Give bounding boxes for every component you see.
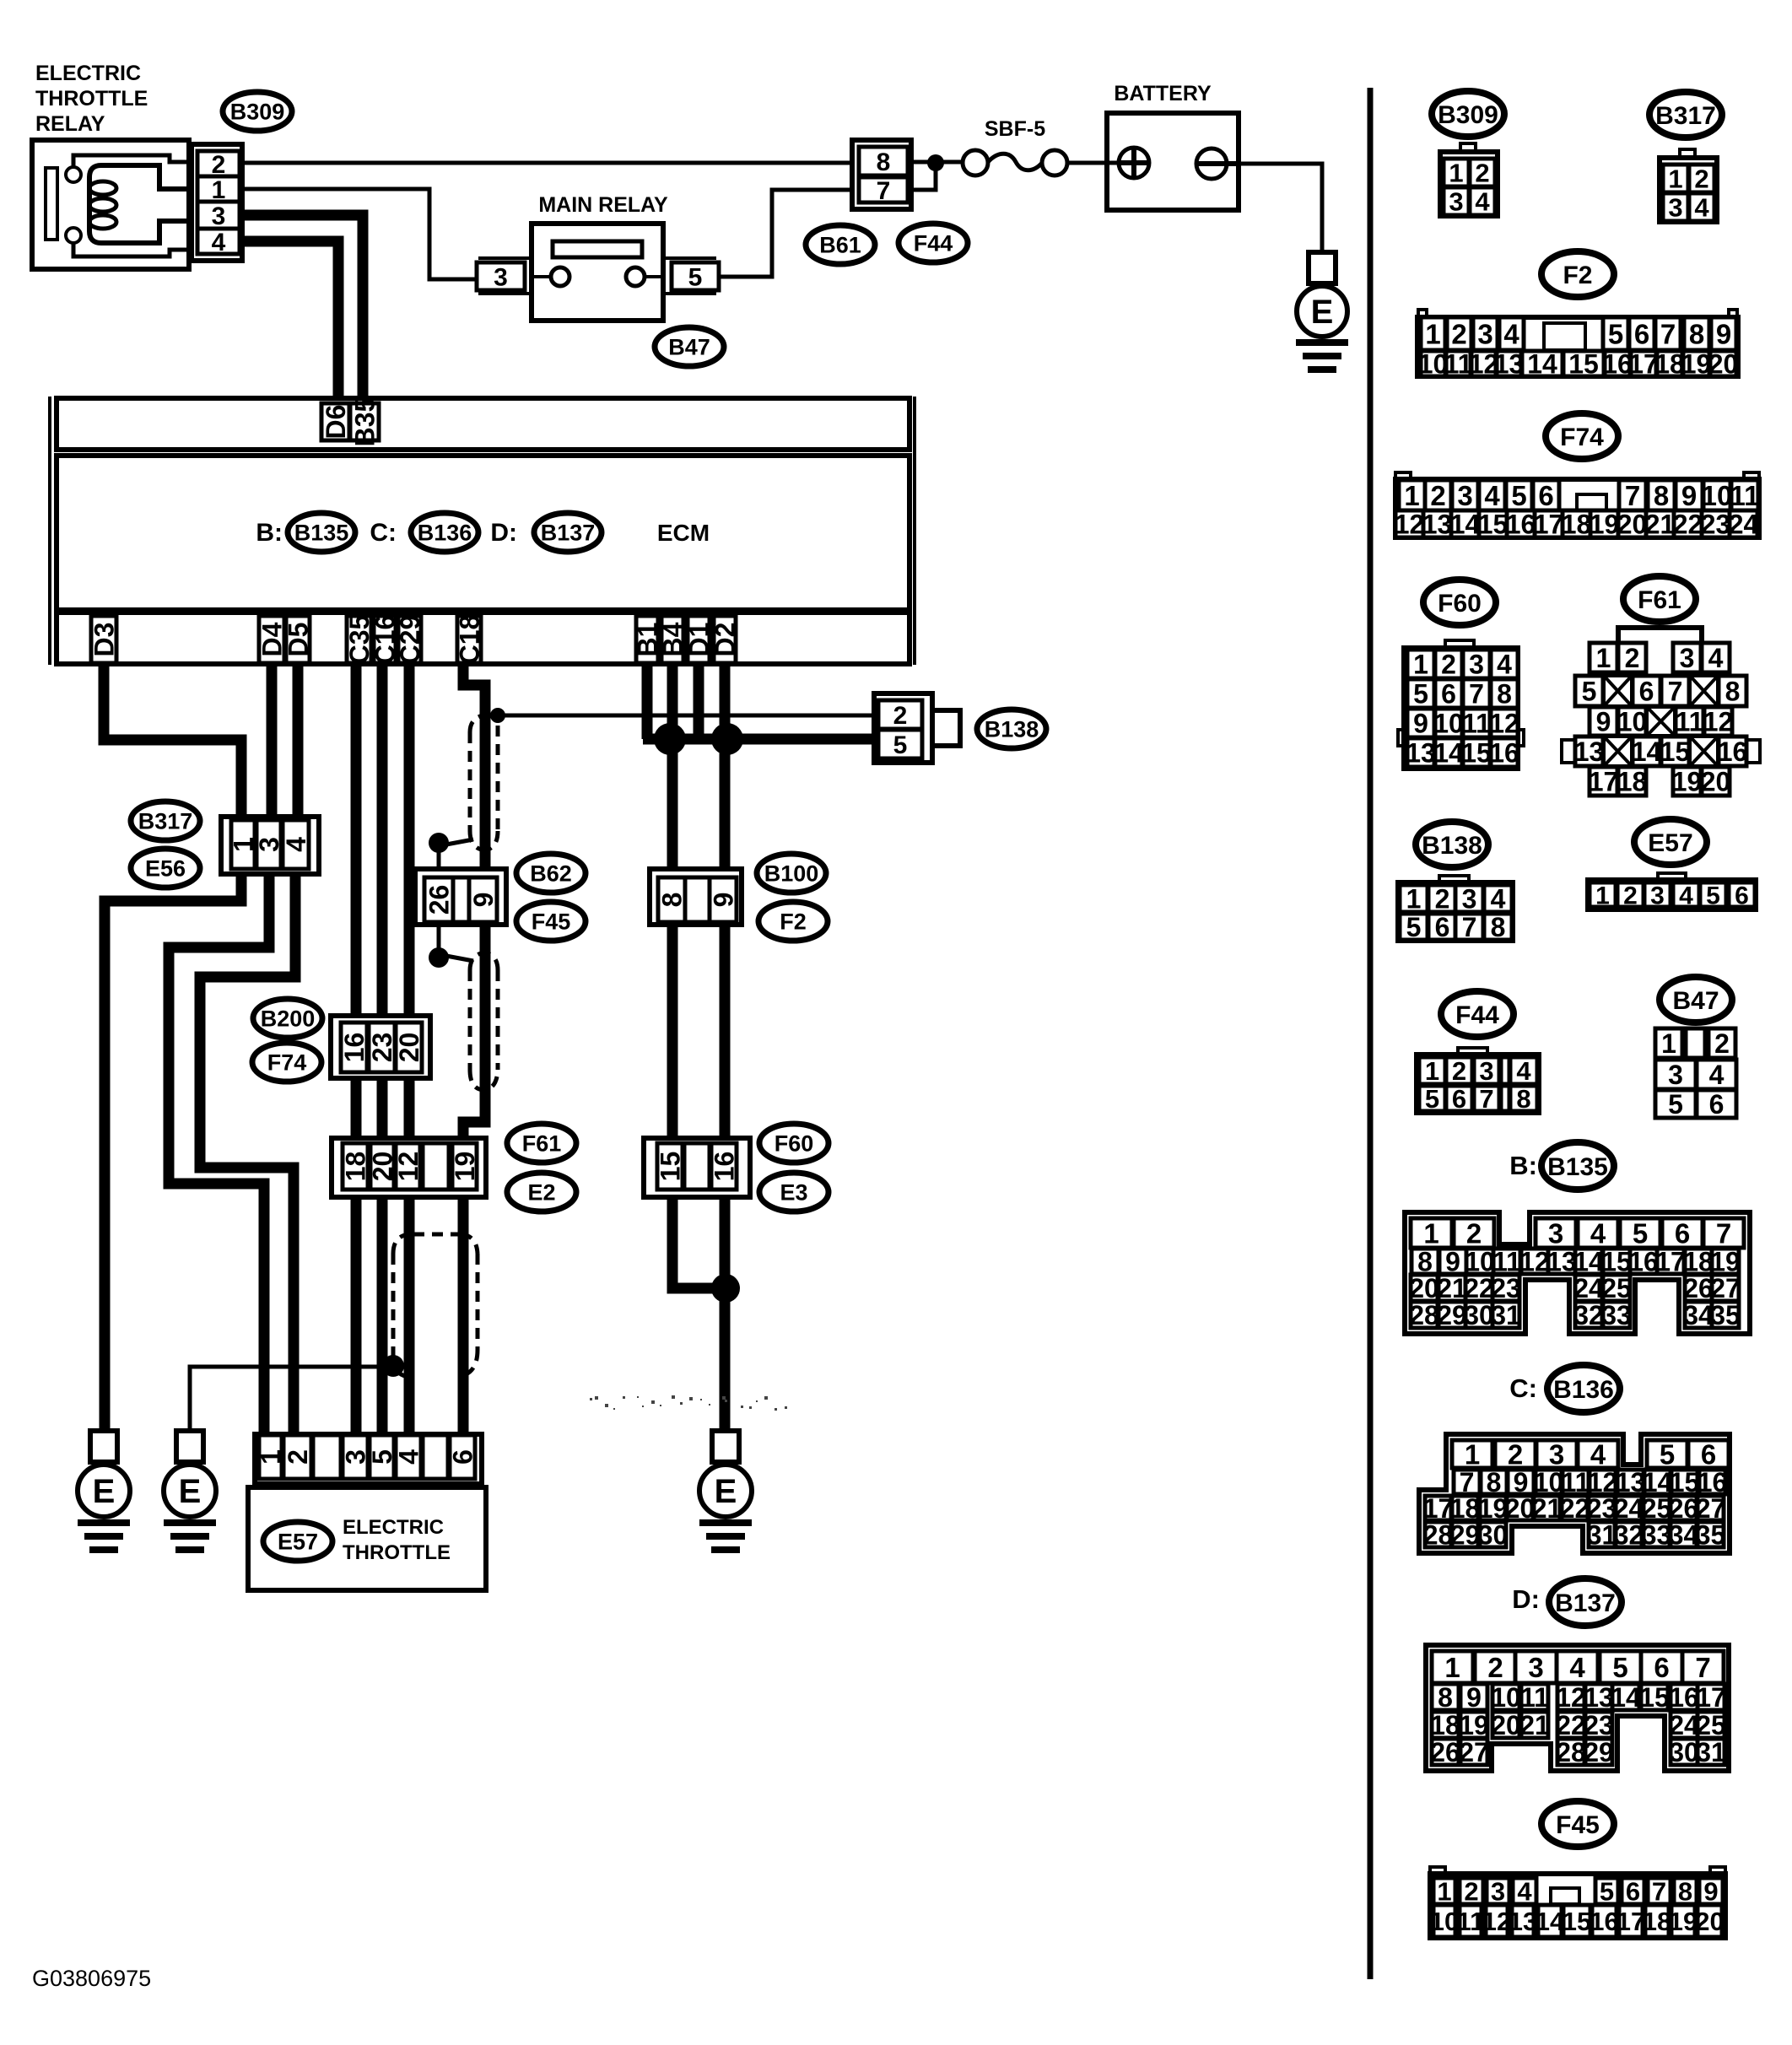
svg-text:D:: D:: [1512, 1584, 1540, 1614]
svg-text:6: 6: [1701, 1438, 1716, 1470]
svg-text:11: 11: [1730, 480, 1760, 511]
svg-text:32: 32: [1614, 1520, 1644, 1551]
svg-text:17: 17: [1655, 1247, 1686, 1277]
svg-text:24: 24: [1729, 510, 1759, 540]
svg-text:35: 35: [1710, 1300, 1741, 1330]
svg-text:19: 19: [1459, 1710, 1489, 1740]
svg-text:8: 8: [657, 893, 688, 908]
svg-text:33: 33: [1601, 1300, 1632, 1330]
svg-text:6: 6: [1452, 1084, 1466, 1114]
svg-text:1: 1: [1661, 1028, 1676, 1059]
svg-text:21: 21: [1437, 1273, 1467, 1303]
svg-text:5: 5: [1608, 318, 1623, 349]
svg-text:18: 18: [1643, 1907, 1671, 1936]
svg-text:8: 8: [1438, 1682, 1453, 1713]
svg-text:3: 3: [1462, 884, 1477, 915]
svg-text:F44: F44: [914, 231, 953, 256]
svg-text:F45: F45: [1556, 1811, 1600, 1839]
svg-text:24: 24: [1669, 1710, 1699, 1740]
svg-text:8: 8: [1497, 679, 1512, 710]
svg-text:22: 22: [1673, 510, 1703, 540]
svg-text:16: 16: [1489, 738, 1519, 769]
svg-text:E: E: [715, 1473, 737, 1510]
svg-text:B61: B61: [819, 233, 861, 258]
svg-text:8: 8: [1491, 912, 1506, 942]
svg-text:5: 5: [1406, 912, 1422, 942]
svg-text:1: 1: [1596, 643, 1611, 673]
svg-text:F61: F61: [522, 1131, 562, 1157]
svg-text:19: 19: [450, 1152, 480, 1182]
svg-text:2: 2: [1475, 159, 1489, 188]
svg-text:4: 4: [1679, 882, 1693, 909]
svg-text:12: 12: [1489, 709, 1519, 739]
svg-text:3: 3: [1549, 1438, 1564, 1470]
svg-text:27: 27: [1459, 1737, 1489, 1767]
svg-text:17: 17: [1589, 767, 1619, 797]
svg-text:12: 12: [1482, 1907, 1511, 1936]
svg-text:1: 1: [1465, 1438, 1480, 1470]
svg-text:27: 27: [1710, 1273, 1741, 1303]
svg-text:B200: B200: [261, 1006, 316, 1032]
svg-text:E: E: [179, 1473, 202, 1510]
svg-text:4: 4: [1497, 650, 1512, 680]
svg-text:10: 10: [1491, 1682, 1521, 1713]
svg-text:28: 28: [1409, 1300, 1439, 1330]
svg-text:34: 34: [1669, 1520, 1699, 1551]
svg-text:8: 8: [1678, 1877, 1692, 1907]
svg-text:16: 16: [1718, 737, 1748, 767]
svg-text:15: 15: [1563, 1907, 1591, 1936]
svg-text:2: 2: [1430, 480, 1445, 511]
svg-text:15: 15: [656, 1152, 686, 1182]
svg-text:31: 31: [1696, 1737, 1726, 1767]
svg-text:16: 16: [1506, 510, 1536, 540]
svg-text:7: 7: [1660, 318, 1676, 349]
svg-text:14: 14: [1611, 1682, 1641, 1713]
svg-text:18: 18: [1430, 1710, 1460, 1740]
svg-text:1: 1: [1437, 1877, 1451, 1907]
svg-text:D:: D:: [490, 519, 517, 547]
svg-text:20: 20: [1695, 1907, 1724, 1936]
svg-text:THROTTLE: THROTTLE: [35, 87, 148, 111]
svg-text:4: 4: [1517, 1877, 1532, 1907]
svg-text:9: 9: [1703, 1877, 1718, 1907]
svg-text:1: 1: [1406, 884, 1422, 915]
svg-text:24: 24: [1573, 1273, 1604, 1303]
svg-text:B135: B135: [1547, 1153, 1608, 1181]
svg-text:1: 1: [1449, 159, 1463, 188]
svg-text:2: 2: [1435, 884, 1450, 915]
svg-text:5: 5: [1706, 882, 1720, 909]
svg-text:2: 2: [1464, 1877, 1478, 1907]
svg-text:B47: B47: [668, 335, 710, 360]
svg-text:3: 3: [1668, 1060, 1683, 1090]
svg-text:11: 11: [1462, 709, 1491, 739]
svg-text:19: 19: [1669, 1907, 1698, 1936]
svg-text:4: 4: [1475, 187, 1490, 217]
svg-text:B138: B138: [1422, 832, 1482, 860]
svg-text:31: 31: [1587, 1520, 1617, 1551]
svg-text:14: 14: [1433, 738, 1464, 769]
svg-text:9: 9: [1413, 709, 1428, 739]
svg-text:15: 15: [1478, 510, 1509, 540]
svg-text:10: 10: [1430, 1907, 1459, 1936]
svg-text:6: 6: [1634, 318, 1649, 349]
svg-text:1: 1: [1404, 480, 1419, 511]
svg-text:29: 29: [1584, 1737, 1614, 1767]
svg-text:B317: B317: [1655, 102, 1716, 130]
svg-text:22: 22: [1560, 1493, 1590, 1524]
svg-text:2: 2: [1508, 1438, 1523, 1470]
svg-text:7: 7: [1462, 912, 1477, 942]
svg-text:16: 16: [1669, 1682, 1699, 1713]
svg-text:14: 14: [1536, 1907, 1565, 1936]
svg-text:20: 20: [1409, 1273, 1439, 1303]
svg-text:4: 4: [1516, 1056, 1531, 1086]
svg-text:4: 4: [1491, 884, 1506, 915]
svg-text:2: 2: [893, 702, 908, 730]
svg-text:1: 1: [1413, 650, 1428, 680]
svg-text:18: 18: [1617, 767, 1648, 797]
svg-text:15: 15: [1639, 1682, 1670, 1713]
svg-text:5: 5: [1600, 1877, 1614, 1907]
svg-text:4: 4: [1590, 1217, 1606, 1249]
svg-text:28: 28: [1423, 1520, 1454, 1551]
svg-text:32: 32: [1573, 1300, 1604, 1330]
svg-text:F2: F2: [1563, 262, 1592, 289]
svg-text:17: 17: [1617, 1907, 1645, 1936]
svg-text:15: 15: [1461, 738, 1492, 769]
svg-text:5: 5: [1660, 1438, 1675, 1470]
svg-text:30: 30: [1478, 1520, 1509, 1551]
svg-text:4: 4: [1569, 1652, 1585, 1683]
svg-text:19: 19: [1590, 510, 1620, 540]
svg-text:3: 3: [254, 837, 284, 852]
svg-text:D3: D3: [89, 623, 120, 657]
svg-text:4: 4: [1708, 643, 1724, 673]
svg-text:B309: B309: [1438, 101, 1498, 129]
svg-text:B309: B309: [230, 100, 285, 125]
svg-text:4: 4: [394, 1449, 424, 1465]
svg-text:7: 7: [1668, 677, 1683, 707]
svg-text:E56: E56: [145, 856, 186, 882]
svg-text:7: 7: [1625, 480, 1640, 511]
svg-text:B136: B136: [1553, 1376, 1614, 1404]
svg-text:18: 18: [341, 1152, 371, 1182]
svg-text:F74: F74: [1560, 424, 1604, 451]
svg-text:4: 4: [1709, 1060, 1725, 1090]
svg-text:C29: C29: [395, 615, 425, 665]
svg-text:1: 1: [1668, 165, 1682, 194]
svg-text:5: 5: [688, 263, 703, 291]
svg-text:14: 14: [1632, 737, 1662, 767]
svg-text:34: 34: [1683, 1300, 1714, 1330]
svg-text:15: 15: [1660, 737, 1691, 767]
svg-text:1: 1: [1595, 882, 1610, 909]
svg-text:9: 9: [1596, 707, 1611, 737]
svg-text:5: 5: [1668, 1089, 1683, 1120]
svg-text:6: 6: [448, 1449, 478, 1465]
svg-text:17: 17: [1696, 1682, 1726, 1713]
svg-text:30: 30: [1464, 1300, 1494, 1330]
svg-text:8: 8: [1725, 677, 1741, 707]
svg-text:4: 4: [1503, 318, 1519, 349]
svg-text:2: 2: [1625, 643, 1640, 673]
svg-text:28: 28: [1556, 1737, 1586, 1767]
svg-text:21: 21: [1519, 1710, 1550, 1740]
svg-text:6: 6: [1709, 1089, 1725, 1120]
svg-text:13: 13: [1406, 738, 1436, 769]
svg-text:12: 12: [393, 1152, 424, 1182]
svg-text:7: 7: [1479, 1084, 1493, 1114]
svg-text:B35: B35: [350, 397, 381, 447]
svg-text:C:: C:: [1509, 1373, 1537, 1403]
svg-text:7: 7: [877, 177, 891, 205]
svg-text:25: 25: [1696, 1710, 1726, 1740]
svg-text:5: 5: [1612, 1652, 1627, 1683]
svg-text:19: 19: [1672, 767, 1703, 797]
svg-text:B62: B62: [530, 861, 572, 887]
svg-text:16: 16: [1628, 1247, 1659, 1277]
svg-text:B47: B47: [1672, 987, 1719, 1015]
svg-text:3: 3: [1491, 1877, 1505, 1907]
svg-text:23: 23: [1701, 510, 1731, 540]
svg-text:11: 11: [1520, 1682, 1549, 1713]
svg-text:4: 4: [1590, 1438, 1606, 1470]
svg-text:F61: F61: [1638, 586, 1681, 614]
svg-text:2: 2: [1694, 165, 1708, 194]
svg-text:F60: F60: [775, 1131, 814, 1157]
svg-text:8: 8: [1689, 318, 1704, 349]
svg-text:20: 20: [1708, 349, 1739, 380]
svg-text:16: 16: [710, 1152, 740, 1182]
svg-text:ECM: ECM: [657, 520, 710, 546]
svg-text:18: 18: [1654, 349, 1685, 380]
svg-text:6: 6: [1654, 1652, 1669, 1683]
svg-text:9: 9: [1716, 318, 1731, 349]
svg-text:F60: F60: [1438, 590, 1482, 618]
svg-text:14: 14: [1527, 349, 1557, 380]
svg-text:26: 26: [1430, 1737, 1460, 1767]
svg-text:20: 20: [1701, 767, 1731, 797]
svg-text:7: 7: [1695, 1652, 1710, 1683]
svg-text:16: 16: [339, 1033, 370, 1063]
svg-text:13: 13: [1494, 349, 1525, 380]
svg-text:29: 29: [1450, 1520, 1481, 1551]
svg-text:2: 2: [1466, 1217, 1482, 1249]
svg-text:E2: E2: [527, 1180, 555, 1206]
svg-text:1: 1: [1423, 1217, 1438, 1249]
svg-text:D6: D6: [321, 405, 351, 440]
svg-text:13: 13: [1546, 1247, 1577, 1277]
svg-text:4: 4: [281, 837, 311, 852]
svg-text:6: 6: [1441, 679, 1456, 710]
svg-text:6: 6: [1435, 912, 1450, 942]
svg-text:2: 2: [1451, 318, 1466, 349]
svg-text:F44: F44: [1455, 1001, 1499, 1029]
svg-text:D2: D2: [710, 623, 741, 657]
svg-text:E3: E3: [780, 1180, 807, 1206]
svg-text:5: 5: [893, 731, 908, 759]
svg-text:3: 3: [1449, 187, 1463, 217]
svg-text:12: 12: [1395, 510, 1425, 540]
svg-text:9: 9: [468, 893, 499, 908]
svg-text:22: 22: [1556, 1710, 1586, 1740]
svg-text:8: 8: [1516, 1084, 1530, 1114]
svg-text:1: 1: [1425, 318, 1440, 349]
svg-text:3: 3: [1469, 650, 1484, 680]
svg-text:26: 26: [1683, 1273, 1714, 1303]
svg-text:3: 3: [1668, 193, 1682, 223]
svg-text:3: 3: [212, 202, 226, 230]
svg-text:F74: F74: [267, 1050, 307, 1076]
svg-text:C:: C:: [370, 519, 397, 547]
svg-text:ELECTRIC: ELECTRIC: [35, 62, 141, 85]
svg-text:ELECTRIC: ELECTRIC: [343, 1516, 444, 1539]
svg-text:23: 23: [367, 1033, 397, 1063]
svg-text:20: 20: [394, 1033, 424, 1063]
svg-text:2: 2: [1623, 882, 1638, 909]
svg-text:2: 2: [1714, 1028, 1730, 1059]
svg-text:5: 5: [1413, 679, 1428, 710]
svg-text:4: 4: [1694, 193, 1709, 223]
svg-text:2: 2: [283, 1449, 313, 1465]
svg-text:13: 13: [1584, 1682, 1614, 1713]
svg-text:10: 10: [1617, 707, 1648, 737]
svg-text:SBF-5: SBF-5: [985, 117, 1045, 141]
svg-text:B137: B137: [541, 521, 596, 546]
svg-text:15: 15: [1568, 349, 1599, 380]
svg-text:D5: D5: [283, 623, 314, 657]
svg-text:B137: B137: [1555, 1589, 1616, 1617]
svg-text:21: 21: [1532, 1493, 1563, 1524]
svg-text:7: 7: [1469, 679, 1484, 710]
svg-text:29: 29: [1437, 1300, 1467, 1330]
svg-text:F2: F2: [780, 909, 807, 935]
svg-text:B135: B135: [294, 521, 349, 546]
svg-text:9: 9: [709, 893, 739, 908]
svg-text:12: 12: [1519, 1247, 1550, 1277]
svg-text:6: 6: [1538, 480, 1553, 511]
svg-text:1: 1: [1444, 1652, 1460, 1683]
svg-text:3: 3: [1457, 480, 1472, 511]
svg-text:6: 6: [1626, 1877, 1640, 1907]
svg-text:B136: B136: [418, 521, 472, 546]
svg-text:5: 5: [1582, 677, 1597, 707]
svg-text:6: 6: [1675, 1217, 1690, 1249]
svg-text:11: 11: [1457, 1907, 1485, 1936]
svg-text:5: 5: [1633, 1217, 1648, 1249]
svg-text:E: E: [1311, 294, 1334, 331]
svg-text:B100: B100: [764, 861, 819, 887]
svg-text:3: 3: [1528, 1652, 1543, 1683]
svg-text:2: 2: [1441, 650, 1456, 680]
svg-text:3: 3: [1477, 318, 1492, 349]
svg-text:13: 13: [1422, 510, 1453, 540]
svg-text:10: 10: [1433, 709, 1464, 739]
svg-text:7: 7: [1716, 1217, 1731, 1249]
svg-text:13: 13: [1574, 737, 1605, 767]
svg-text:3: 3: [494, 263, 508, 291]
svg-text:RELAY: RELAY: [35, 112, 105, 136]
svg-text:3: 3: [1548, 1217, 1563, 1249]
svg-text:22: 22: [1464, 1273, 1494, 1303]
svg-text:35: 35: [1696, 1520, 1726, 1551]
svg-text:3: 3: [1650, 882, 1665, 909]
svg-text:6: 6: [1639, 677, 1654, 707]
svg-text:4: 4: [1484, 480, 1500, 511]
svg-text:8: 8: [877, 148, 891, 176]
svg-text:33: 33: [1642, 1520, 1672, 1551]
svg-text:20: 20: [1617, 510, 1648, 540]
svg-text:1: 1: [1425, 1056, 1439, 1086]
svg-text:23: 23: [1491, 1273, 1521, 1303]
svg-text:16: 16: [1590, 1907, 1618, 1936]
svg-text:THROTTLE: THROTTLE: [343, 1541, 451, 1564]
svg-text:B317: B317: [138, 809, 193, 834]
svg-text:9: 9: [1466, 1682, 1482, 1713]
svg-text:12: 12: [1703, 707, 1734, 737]
svg-text:19: 19: [1681, 349, 1712, 380]
svg-text:BATTERY: BATTERY: [1114, 82, 1212, 105]
svg-text:9: 9: [1681, 480, 1697, 511]
svg-text:10: 10: [1702, 480, 1733, 511]
svg-text:5: 5: [1425, 1084, 1439, 1114]
svg-text:2: 2: [1452, 1056, 1466, 1086]
svg-text:MAIN RELAY: MAIN RELAY: [538, 193, 668, 217]
svg-text:20: 20: [1505, 1493, 1536, 1524]
svg-text:18: 18: [1562, 510, 1592, 540]
svg-text:13: 13: [1509, 1907, 1537, 1936]
svg-text:6: 6: [1735, 882, 1749, 909]
svg-text:2: 2: [1487, 1652, 1503, 1683]
svg-text:31: 31: [1491, 1300, 1521, 1330]
svg-text:7: 7: [1652, 1877, 1666, 1907]
svg-text:21: 21: [1645, 510, 1676, 540]
svg-text:3: 3: [1479, 1056, 1493, 1086]
svg-text:F45: F45: [532, 909, 571, 935]
svg-text:30: 30: [1669, 1737, 1699, 1767]
svg-text:4: 4: [212, 229, 226, 256]
svg-text:23: 23: [1584, 1710, 1614, 1740]
svg-text:E: E: [93, 1473, 116, 1510]
svg-text:C18: C18: [455, 615, 485, 665]
svg-text:G03806975: G03806975: [32, 1966, 151, 1991]
svg-text:B138: B138: [985, 717, 1039, 742]
svg-text:14: 14: [1450, 510, 1481, 540]
svg-text:8: 8: [1654, 480, 1669, 511]
svg-text:26: 26: [424, 885, 455, 915]
svg-text:17: 17: [1534, 510, 1564, 540]
svg-text:25: 25: [1601, 1273, 1632, 1303]
svg-text:12: 12: [1556, 1682, 1586, 1713]
svg-text:20: 20: [1491, 1710, 1521, 1740]
svg-text:E57: E57: [278, 1530, 318, 1555]
svg-text:5: 5: [1511, 480, 1526, 511]
svg-text:B:: B:: [256, 519, 283, 547]
svg-text:3: 3: [1680, 643, 1695, 673]
svg-text:11: 11: [1676, 707, 1704, 737]
svg-text:B:: B:: [1509, 1151, 1537, 1180]
svg-text:E57: E57: [1648, 829, 1692, 857]
